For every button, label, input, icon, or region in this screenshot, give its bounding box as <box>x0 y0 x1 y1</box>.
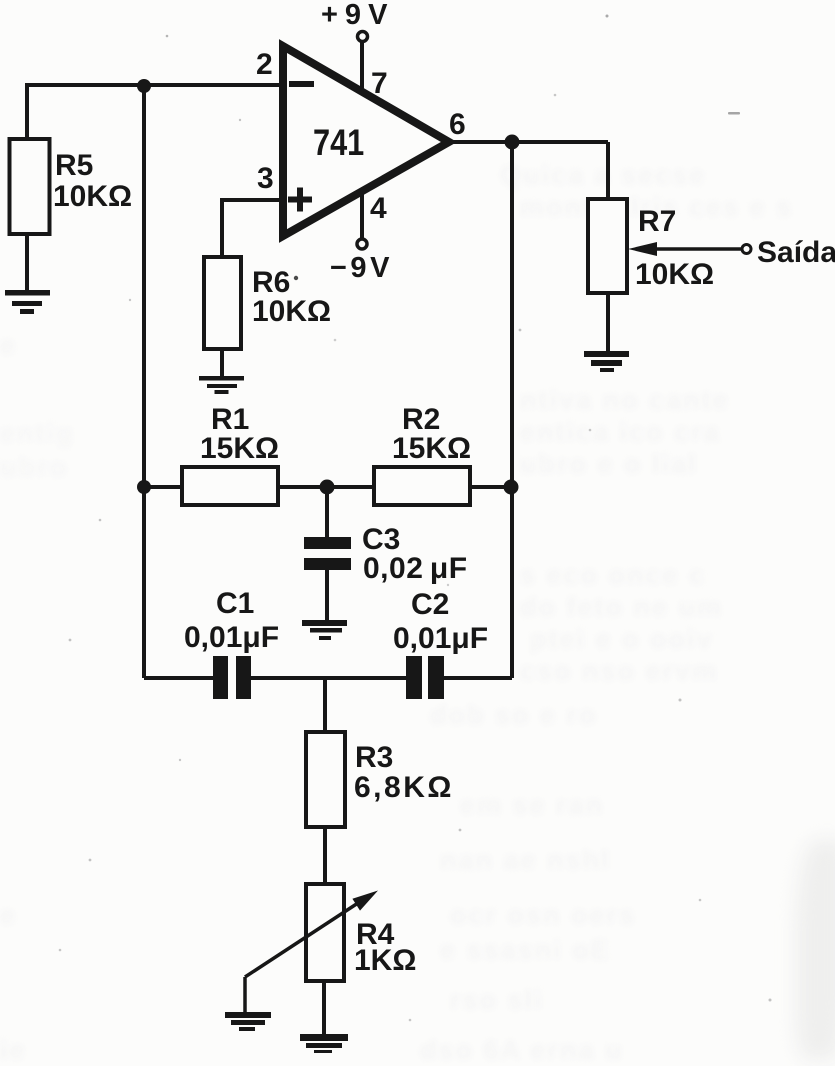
svg-text:10KΩ: 10KΩ <box>252 295 331 328</box>
svg-text:R7: R7 <box>638 205 676 238</box>
svg-text:1KΩ: 1KΩ <box>354 944 416 977</box>
svg-text:C2: C2 <box>411 588 449 621</box>
svg-text:741: 741 <box>313 122 364 163</box>
svg-text:R5: R5 <box>55 149 93 182</box>
svg-text:15KΩ: 15KΩ <box>200 432 279 465</box>
svg-text:−9V: −9V <box>330 252 393 284</box>
svg-text:4: 4 <box>370 192 387 225</box>
svg-text:10KΩ: 10KΩ <box>635 258 714 291</box>
svg-text:C1: C1 <box>216 587 254 620</box>
svg-text:Saída: Saída <box>757 236 835 269</box>
svg-text:2: 2 <box>256 48 273 81</box>
svg-text:3: 3 <box>257 162 274 195</box>
svg-text:10KΩ: 10KΩ <box>53 180 132 213</box>
svg-text:+9V: +9V <box>321 0 394 31</box>
svg-text:6: 6 <box>449 108 466 141</box>
svg-text:0,01μF: 0,01μF <box>184 621 279 654</box>
svg-text:6,8KΩ: 6,8KΩ <box>354 771 454 804</box>
svg-text:15KΩ: 15KΩ <box>392 432 471 465</box>
svg-text:R3: R3 <box>355 741 393 774</box>
svg-text:0,01μF: 0,01μF <box>393 622 488 655</box>
svg-text:0,02 μF: 0,02 μF <box>363 552 468 585</box>
svg-text:7: 7 <box>371 67 388 100</box>
